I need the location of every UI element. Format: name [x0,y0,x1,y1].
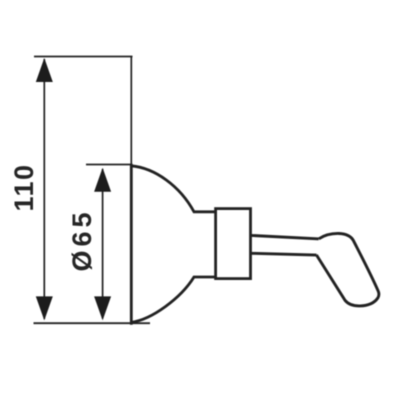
arrowhead 110 top [36,58,53,82]
dome top profile curve [131,166,216,212]
svg-text:Ø65: Ø65 [67,213,97,272]
lever arm upper line [251,235,321,239]
extension line bottom (shared lower reference) [34,322,151,324]
svg-text:110: 110 [9,165,39,212]
lever arm lower line [251,253,318,255]
dome bottom profile curve [131,277,216,322]
arrowhead Ø65 top [94,168,111,192]
extension of escutcheon face line upward [130,57,132,165]
dimension line Ø65 [102,169,104,319]
extension line top (110 upper reference) [34,56,133,58]
extension line mid (Ø65 upper reference) [86,164,132,166]
escutcheon flat face (left vertical) [130,164,133,325]
handle grip fill [316,233,378,305]
dimension line 110 [43,59,45,319]
stem housing rectangle [216,209,251,279]
arrowhead Ø65 bottom [94,296,111,320]
arrowhead 110 bottom [36,296,53,320]
handle grip outline [316,233,378,305]
